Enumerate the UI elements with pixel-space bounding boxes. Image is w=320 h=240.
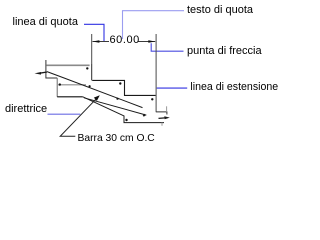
rebar hook top (left arrow) — [35, 72, 42, 75]
wire: blue callout for punta di freccia — [151, 43, 183, 51]
stair bottom stub — [161, 123, 163, 126]
dimension line — [93, 41, 110, 43]
arrowhead right — [148, 40, 155, 42]
stair right break: horizontal — [156, 112, 167, 115]
rebar dot 5 — [125, 119, 127, 121]
lower rebar hook (right arrow) — [159, 117, 166, 120]
extension line 1 — [91, 34, 93, 64]
wire: blue callout for direttrice — [48, 113, 81, 115]
rebar lower bar blob — [143, 115, 145, 116]
arrowhead left — [92, 40, 99, 42]
stair right break: gray stub — [166, 106, 168, 112]
gray bar in landing — [58, 84, 86, 86]
leader arrowhead — [94, 95, 100, 101]
rebar dot 3 — [151, 98, 153, 100]
label: testo di quota — [187, 5, 253, 16]
rebar dot 7 — [116, 98, 118, 100]
under riser gray — [56, 78, 58, 97]
bottom flat — [57, 96, 83, 98]
rebar dot 1 — [86, 67, 88, 69]
rebar upper bar diagonal — [47, 72, 143, 108]
rebar dot 6 — [89, 85, 91, 87]
label: linea di quota — [13, 17, 78, 28]
label: linea di estensione — [190, 82, 278, 93]
extension line 2 — [155, 34, 157, 112]
wire: blue callout for linea di quota — [84, 24, 104, 41]
dimension text 60.00 — [110, 35, 140, 46]
label: punta di freccia — [187, 46, 262, 57]
wire: blue callout for linea di estensione — [157, 87, 188, 89]
stair tread 1 — [46, 64, 89, 66]
rebar dot 2 — [119, 82, 121, 84]
label: direttrice — [5, 104, 47, 115]
stair soffit slope and bottom edge — [83, 97, 164, 123]
leader (direttrice) line — [60, 97, 98, 137]
rebar lower bar diagonal — [84, 98, 146, 115]
wire: blue callout for testo di quota — [123, 11, 185, 39]
stair tread 2, riser 2, tread 3 — [92, 80, 155, 95]
riser 1 — [91, 64, 93, 80]
label: Barra 30 cm O.C — [78, 133, 155, 144]
rebar dot 4 — [59, 83, 61, 85]
stair left break cut — [46, 60, 57, 78]
